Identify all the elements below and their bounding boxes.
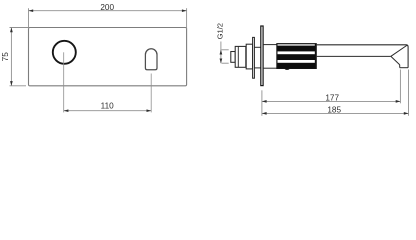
dimension 110 [64,102,152,112]
extension line from escutcheon [261,90,263,116]
outlet bottom face [400,67,408,69]
extension line below sensor [150,74,152,113]
extension lines for 75 [10,27,29,29]
extension line from spout tip [408,70,410,116]
body neck bottom edge [254,67,260,69]
svg-text:177: 177 [325,94,339,103]
wall plate front view [29,28,187,86]
inlet pipe cap [231,52,235,63]
extension line from spout outlet [399,70,401,104]
control knob circle [53,41,76,64]
set screw bump [285,68,290,70]
dimension 200 [29,3,187,12]
extension lines for 200 [28,8,30,29]
spout tip diagonal [391,45,407,56]
grip end cap [315,44,317,69]
dimension 75 [1,28,13,86]
hex nut [235,46,246,67]
svg-text:200: 200 [100,3,114,12]
svg-text:G1/2: G1/2 [216,23,225,39]
spout top outline [316,45,408,68]
G1/2 dimension [220,42,229,64]
collar top edge [263,44,277,46]
spout chamfer [391,56,400,64]
spout bottom outline [316,55,391,57]
body neck top edge [254,46,260,48]
outlet left edge [399,65,401,68]
svg-text:75: 75 [1,52,10,62]
svg-text:185: 185 [327,106,341,115]
back plate [253,37,255,78]
thread relief line [237,46,239,67]
svg-text:110: 110 [101,102,114,111]
dimension 185 [262,106,409,115]
mounting flange [246,44,252,69]
collar bottom edge [263,67,277,69]
wall escutcheon [261,26,263,86]
knurled grip [277,44,316,69]
sensor window [145,49,157,70]
dimension 177 [262,94,401,103]
center line below circle [63,52,65,112]
